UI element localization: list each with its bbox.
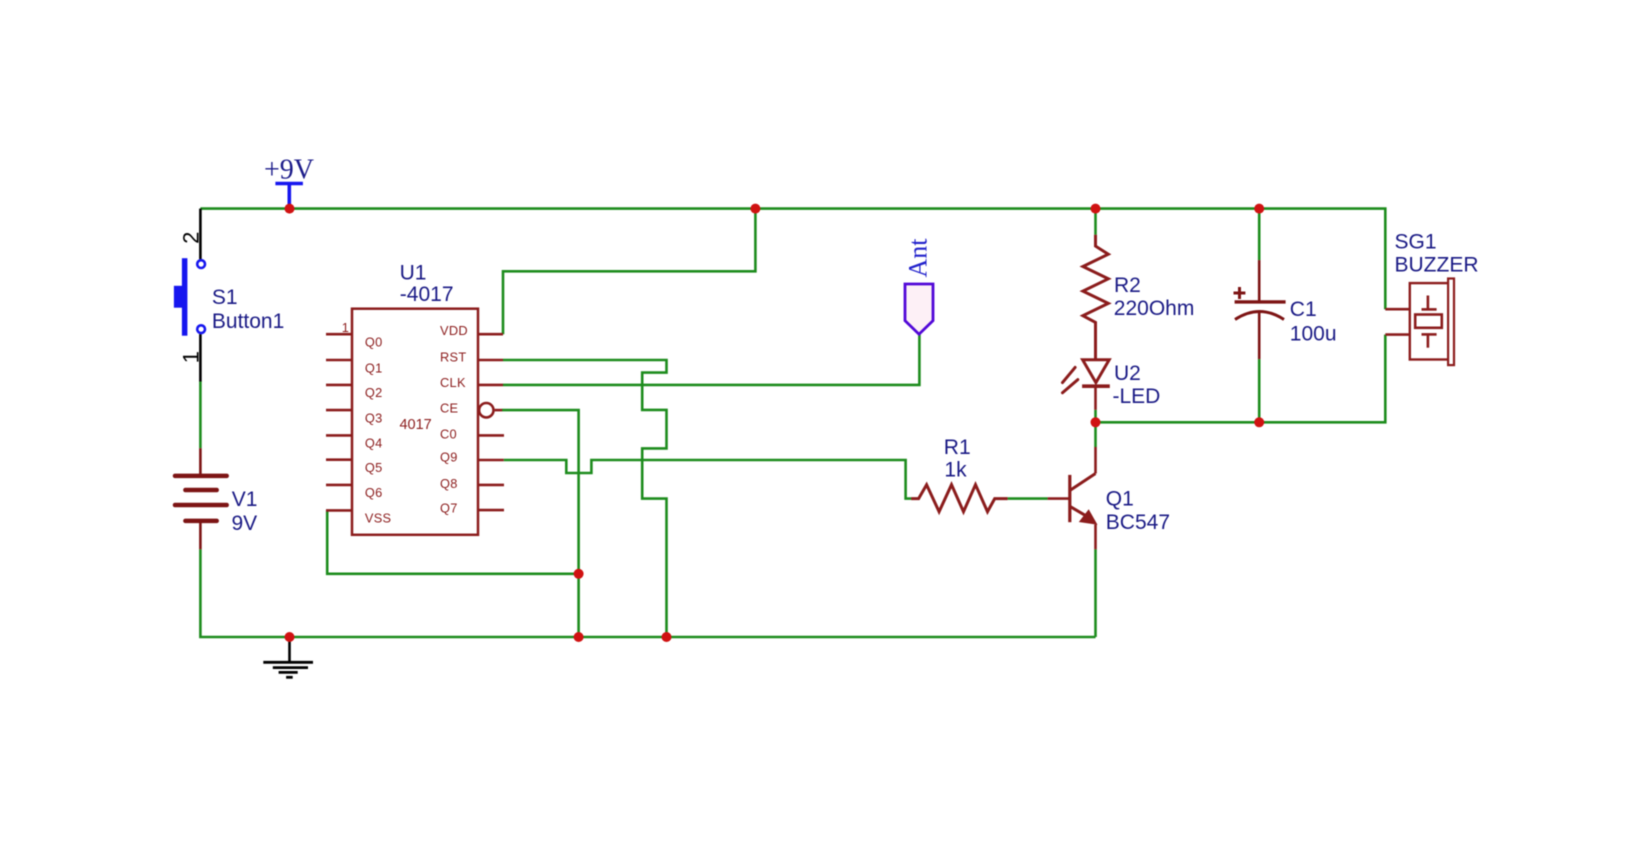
junction node RST net at bottom rail xyxy=(662,632,672,642)
IC U1 CE pin stub xyxy=(495,409,503,412)
svg-text:SG1: SG1 xyxy=(1395,230,1437,253)
wire C1 minus lead to node xyxy=(1258,359,1261,422)
wire top rail to R2 top lead xyxy=(1094,209,1097,235)
svg-text:C0: C0 xyxy=(440,427,457,442)
svg-text:R1: R1 xyxy=(944,436,971,459)
junction node +9V at top rail xyxy=(285,204,295,214)
wire ground bottom rail xyxy=(200,549,1095,637)
wire Q1 collector to node LED xyxy=(1094,422,1097,447)
wire R1 right lead to Q1 base xyxy=(1008,497,1048,500)
svg-text:+9V: +9V xyxy=(264,155,314,186)
capacitor C1 100u xyxy=(1234,260,1286,359)
buzzer SG1 xyxy=(1385,279,1454,366)
svg-text:BC547: BC547 xyxy=(1106,511,1170,534)
svg-text:Q7: Q7 xyxy=(440,501,458,516)
battery V1 9V xyxy=(175,448,227,549)
svg-text:U2: U2 xyxy=(1114,362,1141,385)
IC U1 4017 body xyxy=(352,309,478,535)
resistor R1 1k xyxy=(911,485,1007,512)
junction node R2 at top rail xyxy=(1091,204,1101,214)
svg-text:Button1: Button1 xyxy=(212,310,284,333)
svg-text:CLK: CLK xyxy=(440,375,466,390)
resistor R2 220Ohm xyxy=(1083,235,1108,360)
svg-text:S1: S1 xyxy=(212,286,238,309)
svg-text:2: 2 xyxy=(179,232,204,244)
junction node CE net at bottom rail xyxy=(574,632,584,642)
power symbol +9V xyxy=(275,184,303,207)
wire Q9 pin to R1 left lead xyxy=(504,460,912,499)
wire +9V top rail to buzzer pin 1 xyxy=(200,209,1385,310)
svg-text:Q1: Q1 xyxy=(365,360,383,375)
svg-text:CE: CE xyxy=(440,401,458,416)
svg-text:U1: U1 xyxy=(400,262,427,285)
svg-text:1k: 1k xyxy=(944,459,967,482)
svg-text:Ant: Ant xyxy=(904,238,933,278)
wire button pin1 to battery plus xyxy=(199,381,202,448)
svg-text:100u: 100u xyxy=(1290,323,1337,346)
svg-text:BUZZER: BUZZER xyxy=(1395,254,1479,277)
IC U1 right pin stubs VDD,RST,CLK,C0,Q9,Q8,Q7 xyxy=(478,334,504,510)
wire CE pin to ground rail xyxy=(502,410,579,637)
junction node C1 minus xyxy=(1254,417,1264,427)
svg-text:1: 1 xyxy=(179,351,204,363)
svg-text:VSS: VSS xyxy=(365,511,392,526)
junction node GND stem at bottom rail xyxy=(285,632,295,642)
svg-text:-4017: -4017 xyxy=(400,283,454,306)
svg-text:V1: V1 xyxy=(232,488,258,511)
svg-text:220Ohm: 220Ohm xyxy=(1114,297,1195,320)
svg-text:Q0: Q0 xyxy=(365,335,383,350)
wire node LED to buzzer pin 2 xyxy=(1096,335,1386,423)
IC U1 left pin stubs Q0-Q6,VSS xyxy=(326,334,352,510)
wire button pin 1 (black) xyxy=(199,334,202,381)
wire top rail to C1 plus lead xyxy=(1258,209,1261,261)
junction node C1 at top rail xyxy=(1254,204,1264,214)
svg-text:1: 1 xyxy=(342,320,349,335)
LED U2 xyxy=(1063,360,1110,410)
svg-text:Q2: Q2 xyxy=(365,385,383,400)
svg-text:RST: RST xyxy=(440,350,467,365)
svg-text:VDD: VDD xyxy=(440,323,468,338)
svg-text:R2: R2 xyxy=(1114,274,1141,297)
wire VDD pin to top rail xyxy=(503,209,755,335)
ground symbol GND xyxy=(263,637,313,677)
svg-text:Q1: Q1 xyxy=(1106,488,1134,511)
svg-text:Q5: Q5 xyxy=(365,460,383,475)
svg-text:Q8: Q8 xyxy=(440,476,458,491)
wire Q1 emitter to ground rail xyxy=(1094,549,1097,637)
svg-text:9V: 9V xyxy=(232,512,258,535)
junction node VDD riser at top rail xyxy=(750,204,760,214)
transistor Q1 BC547 xyxy=(1048,447,1098,549)
wire RST pin to ground rail xyxy=(503,360,667,637)
pushbutton S1 Button1 xyxy=(174,258,205,336)
svg-text:4017: 4017 xyxy=(399,417,431,433)
svg-text:Q3: Q3 xyxy=(365,410,383,425)
svg-text:C1: C1 xyxy=(1290,298,1317,321)
wire CLK pin to antenna xyxy=(503,334,919,385)
IC U1 CE inverted-input bubble xyxy=(479,403,493,417)
svg-text:Q9: Q9 xyxy=(440,449,458,464)
antenna Ant xyxy=(905,284,933,334)
wire LED cathode to node xyxy=(1094,410,1097,423)
junction node VSS joins CE net xyxy=(574,569,584,579)
junction node LED cathode / collector xyxy=(1091,417,1101,427)
wire VSS pin to CE net xyxy=(327,510,578,573)
svg-text:Q6: Q6 xyxy=(365,485,383,500)
wire button pin 2 (black) xyxy=(199,209,202,260)
svg-text:-LED: -LED xyxy=(1113,385,1161,408)
svg-text:Q4: Q4 xyxy=(365,436,383,451)
